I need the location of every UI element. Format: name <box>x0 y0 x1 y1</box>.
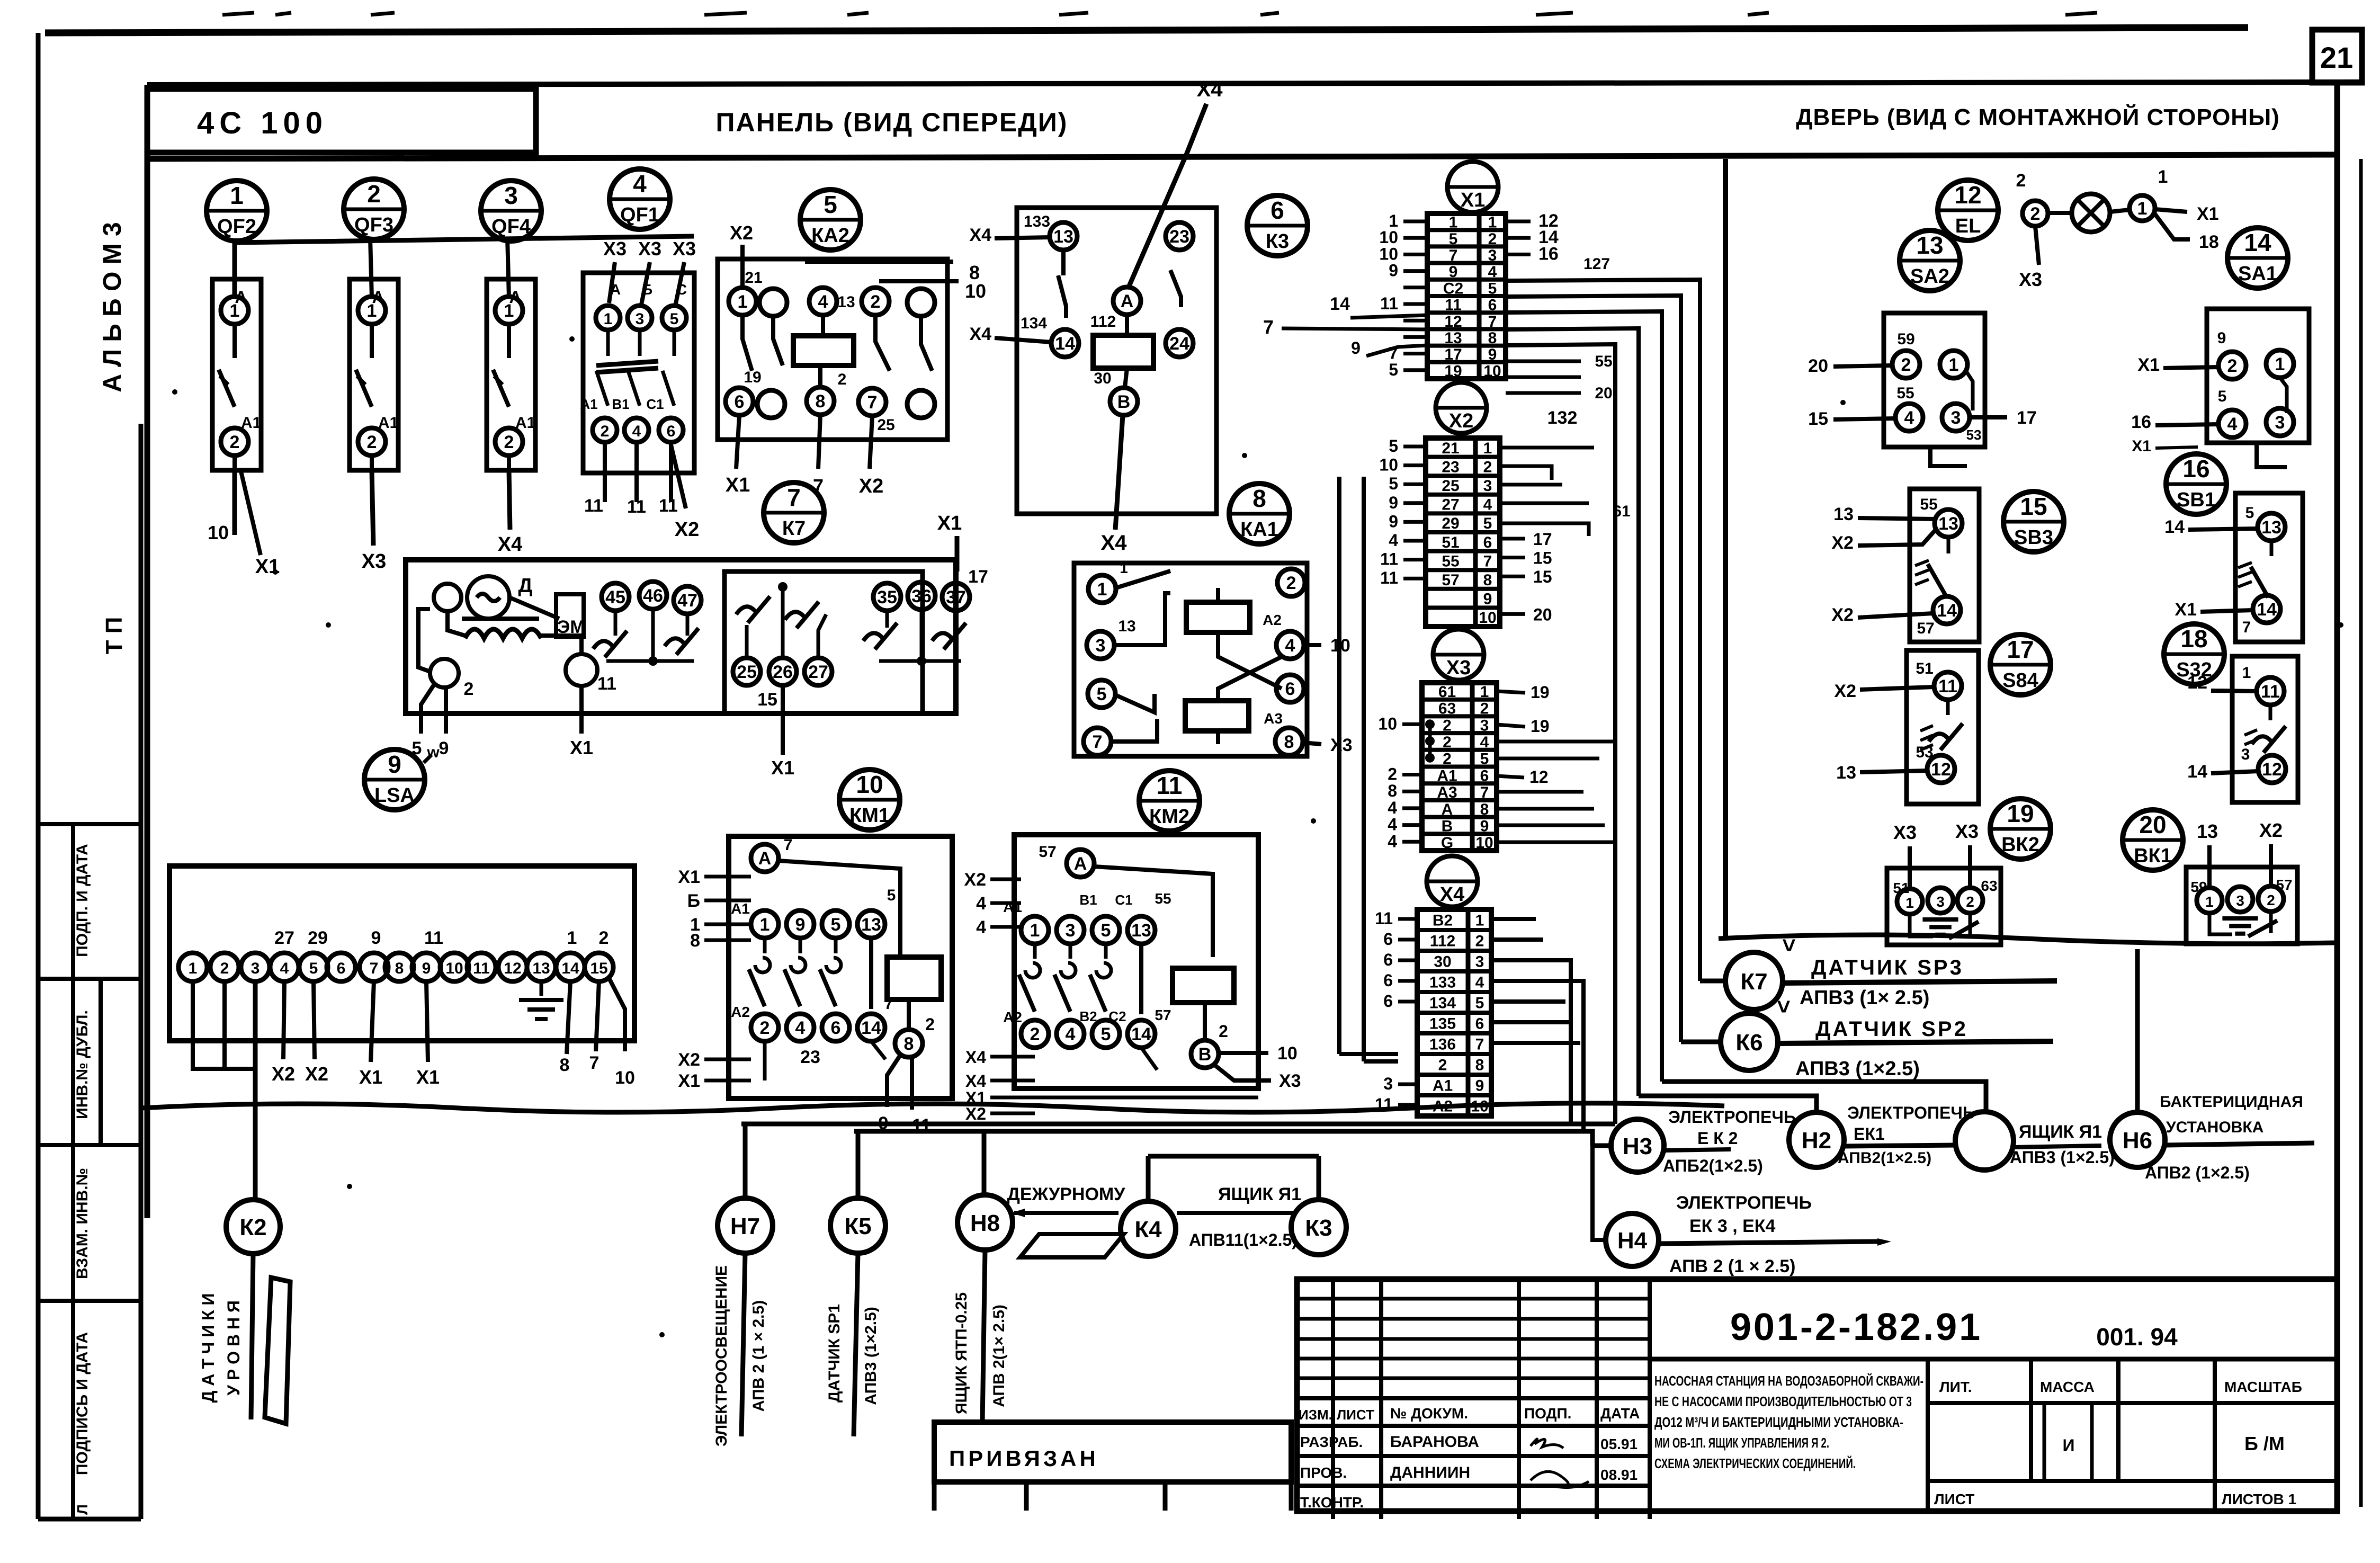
svg-text:9: 9 <box>1480 817 1489 835</box>
svg-text:10: 10 <box>1479 609 1496 627</box>
svg-text:134: 134 <box>1429 995 1456 1012</box>
label circle S84 <box>1990 635 2051 695</box>
svg-text:13: 13 <box>1916 231 1943 259</box>
svg-text:13: 13 <box>2197 820 2218 842</box>
level sensor parallelogram <box>265 1278 290 1424</box>
svg-text:ЭЛЕКТРОПЕЧЬ: ЭЛЕКТРОПЕЧЬ <box>1847 1103 1975 1122</box>
hub K4 <box>1121 1201 1176 1256</box>
svg-text:7: 7 <box>1488 313 1497 331</box>
svg-text:10: 10 <box>1475 834 1493 852</box>
bus line 2 <box>854 1131 1592 1146</box>
svg-text:3: 3 <box>2275 413 2285 433</box>
svg-text:7: 7 <box>784 836 793 854</box>
svg-text:X4: X4 <box>969 324 991 344</box>
svg-text:11: 11 <box>1938 676 1957 696</box>
terminal block X3 <box>1422 683 1497 852</box>
svg-text:6: 6 <box>1483 534 1492 551</box>
svg-text:А: А <box>1074 854 1087 874</box>
svg-text:36: 36 <box>911 586 932 606</box>
label circle SA2 <box>1900 230 1960 291</box>
svg-text:11: 11 <box>584 496 603 516</box>
svg-text:Н6: Н6 <box>2123 1128 2152 1154</box>
svg-text:27: 27 <box>274 928 294 948</box>
svg-text:В2: В2 <box>1433 912 1453 930</box>
svg-text:С2: С2 <box>1443 280 1463 297</box>
hub H2 <box>1789 1112 1844 1167</box>
svg-text:2: 2 <box>1438 1057 1447 1074</box>
terminal 11 of EM <box>566 654 597 686</box>
svg-text:А1: А1 <box>1003 899 1022 915</box>
svg-text:ВК1: ВК1 <box>2134 845 2172 867</box>
svg-text:13: 13 <box>2261 517 2281 538</box>
svg-text:АПВ 2(1× 2.5): АПВ 2(1× 2.5) <box>990 1305 1008 1407</box>
X1 right leads <box>1506 220 1531 224</box>
svg-text:12: 12 <box>504 960 521 977</box>
svg-text:3: 3 <box>1066 921 1076 941</box>
svg-text:13: 13 <box>1836 763 1856 783</box>
sensor box BK1 <box>2186 867 2297 944</box>
svg-text:6: 6 <box>667 423 676 440</box>
drawing area top line <box>147 155 2337 159</box>
svg-text:6: 6 <box>337 960 346 977</box>
svg-text:5: 5 <box>1389 474 1398 493</box>
svg-text:11: 11 <box>1375 909 1393 928</box>
svg-text:2: 2 <box>367 432 377 452</box>
svg-text:25: 25 <box>1442 477 1459 495</box>
X2 right leads <box>1500 537 1525 541</box>
KM1 aux circle 8 <box>907 999 911 1029</box>
svg-text:НАСОСНАЯ СТАНЦИЯ НА ВОДОЗАБОРН: НАСОСНАЯ СТАНЦИЯ НА ВОДОЗАБОРНОЙ СКВАЖИ- <box>1654 1373 1923 1389</box>
svg-text:55: 55 <box>1920 496 1937 513</box>
svg-text:5: 5 <box>1389 360 1398 379</box>
svg-text:4: 4 <box>1388 832 1397 851</box>
svg-text:901-2-182.91: 901-2-182.91 <box>1730 1306 1982 1348</box>
svg-text:15: 15 <box>1533 567 1552 586</box>
KM1 coil <box>887 957 941 999</box>
svg-text:13: 13 <box>532 960 550 977</box>
svg-text:Т П: Т П <box>101 617 127 655</box>
svg-text:29: 29 <box>308 928 328 948</box>
svg-text:7: 7 <box>1480 784 1489 801</box>
svg-text:9: 9 <box>1488 346 1497 363</box>
KA1 inner wires right <box>1250 596 1291 614</box>
svg-text:19: 19 <box>1531 717 1550 736</box>
svg-text:37: 37 <box>946 587 966 608</box>
svg-text:7: 7 <box>1483 552 1492 570</box>
svg-text:X1: X1 <box>726 474 750 496</box>
svg-text:9: 9 <box>795 915 806 935</box>
breaker QF3 body <box>350 279 398 470</box>
svg-text:5: 5 <box>1101 921 1111 941</box>
label circle K7 <box>764 483 824 543</box>
svg-text:X1: X1 <box>416 1066 440 1088</box>
svg-text:57: 57 <box>1155 1007 1171 1023</box>
svg-text:8: 8 <box>1475 1057 1484 1074</box>
H2 riser <box>1639 1096 1817 1112</box>
svg-text:X1: X1 <box>570 737 593 758</box>
svg-text:08.91: 08.91 <box>1600 1467 1638 1483</box>
svg-text:29: 29 <box>1442 515 1459 532</box>
svg-text:ПАНЕЛЬ (ВИД СПЕРЕДИ): ПАНЕЛЬ (ВИД СПЕРЕДИ) <box>716 108 1068 137</box>
svg-text:15: 15 <box>590 960 607 977</box>
svg-text:15: 15 <box>1808 409 1828 429</box>
svg-text:А3: А3 <box>1437 784 1457 801</box>
title block thin rows <box>1297 1297 1650 1301</box>
svg-text:3: 3 <box>1383 1074 1393 1093</box>
svg-text:1: 1 <box>1483 440 1492 457</box>
svg-text:11: 11 <box>473 960 490 977</box>
svg-text:В1: В1 <box>612 396 629 412</box>
svg-text:5: 5 <box>2245 504 2254 522</box>
svg-text:X2: X2 <box>272 1063 295 1085</box>
KA1 contact 1-3 <box>1116 571 1170 588</box>
KA1 contact 5-7 <box>1115 694 1155 712</box>
svg-text:SВ3: SВ3 <box>2014 526 2053 549</box>
svg-text:X4: X4 <box>1101 531 1128 555</box>
switch box SA1 <box>2207 309 2309 443</box>
svg-text:X2: X2 <box>1831 533 1854 553</box>
KA2 coil to 8 <box>818 365 822 387</box>
svg-text:46: 46 <box>643 586 663 606</box>
svg-text:63: 63 <box>1438 700 1456 718</box>
svg-text:X2: X2 <box>1834 681 1856 701</box>
svg-text:8: 8 <box>560 1055 570 1075</box>
svg-text:133: 133 <box>1024 213 1050 230</box>
svg-text:15: 15 <box>757 690 777 710</box>
svg-text:2: 2 <box>220 960 229 977</box>
KM2 aux circle B <box>1203 1003 1207 1039</box>
hub H6 <box>2110 1112 2165 1167</box>
KM1 switch strokes <box>763 938 767 953</box>
dezhurnomu arrow <box>1014 1211 1119 1215</box>
svg-text:А1: А1 <box>731 900 750 917</box>
H4 riser <box>1592 1146 1606 1240</box>
terminal block X1 <box>1427 213 1506 380</box>
svg-text:ПОДПИСЬ И ДАТА: ПОДПИСЬ И ДАТА <box>74 1332 91 1475</box>
SA2 bottom notch <box>1930 447 1967 466</box>
svg-text:1: 1 <box>1030 921 1040 941</box>
svg-text:25: 25 <box>877 416 894 434</box>
svg-text:К3: К3 <box>1305 1215 1332 1241</box>
svg-text:4: 4 <box>976 917 986 937</box>
svg-text:ДАТЧИК SP2: ДАТЧИК SP2 <box>1815 1017 1968 1041</box>
svg-text:55: 55 <box>1595 353 1612 370</box>
svg-text:X2: X2 <box>678 1050 700 1070</box>
hub K6 sensor <box>1721 1013 1778 1070</box>
svg-text:17: 17 <box>2017 408 2037 428</box>
svg-text:У Р О В Н Я: У Р О В Н Я <box>224 1300 243 1396</box>
svg-text:9: 9 <box>1389 512 1398 531</box>
label circle LSA <box>364 749 425 810</box>
svg-text:13: 13 <box>1053 227 1073 247</box>
K7 group outer box <box>406 560 956 713</box>
svg-text:В: В <box>1198 1044 1212 1065</box>
svg-text:13: 13 <box>1833 504 1854 524</box>
svg-text:4: 4 <box>1389 531 1398 550</box>
switch box S83 <box>1910 489 1979 642</box>
svg-text:35: 35 <box>877 587 897 608</box>
svg-text:7: 7 <box>370 960 379 977</box>
signature scribbles <box>1531 1439 1563 1448</box>
svg-text:АПВ11(1×2.5): АПВ11(1×2.5) <box>1189 1230 1298 1249</box>
svg-text:QF3: QF3 <box>354 214 393 236</box>
svg-text:МАСШТАБ: МАСШТАБ <box>2224 1379 2302 1395</box>
svg-text:53: 53 <box>1966 427 1982 443</box>
svg-text:134: 134 <box>1021 315 1047 332</box>
panel-door separator <box>1723 159 1728 937</box>
svg-text:57: 57 <box>1039 843 1056 861</box>
X3 right steps <box>1497 740 1615 744</box>
X3 circle <box>1433 629 1484 680</box>
svg-text:2: 2 <box>464 679 474 699</box>
svg-text:X3: X3 <box>1446 657 1471 679</box>
sidebar inner line <box>139 424 144 1519</box>
svg-text:7: 7 <box>1093 732 1103 752</box>
sheet number box 21 <box>2312 30 2362 83</box>
bus line 1 <box>741 1122 1615 1127</box>
svg-text:4: 4 <box>1904 408 1914 428</box>
svg-text:5: 5 <box>1480 751 1489 768</box>
svg-text:РАЗРАБ.: РАЗРАБ. <box>1300 1434 1363 1450</box>
svg-text:112: 112 <box>1090 313 1116 331</box>
svg-text:1: 1 <box>1449 214 1458 231</box>
svg-text:6: 6 <box>1480 767 1489 784</box>
svg-text:И: И <box>2063 1436 2075 1455</box>
svg-text:3: 3 <box>251 960 260 977</box>
svg-text:X3: X3 <box>673 238 696 260</box>
svg-text:6: 6 <box>1270 197 1284 224</box>
svg-text:47: 47 <box>677 591 697 611</box>
svg-text:С1: С1 <box>1115 892 1132 908</box>
svg-text:К7: К7 <box>782 517 806 540</box>
svg-text:АПВ3 (1× 2.5): АПВ3 (1× 2.5) <box>1800 987 1929 1009</box>
svg-text:1: 1 <box>2158 167 2168 187</box>
svg-text:55: 55 <box>1155 890 1171 907</box>
svg-text:X3: X3 <box>638 238 661 260</box>
ground under 13 <box>540 981 543 996</box>
svg-text:ЛИТ.: ЛИТ. <box>1939 1379 1972 1395</box>
svg-text:2: 2 <box>601 423 610 440</box>
breaker QF1 body <box>580 273 694 502</box>
svg-text:1: 1 <box>1488 214 1497 231</box>
title right subtable <box>1926 1359 1930 1511</box>
svg-text:7: 7 <box>1449 247 1458 264</box>
svg-text:2: 2 <box>504 432 514 452</box>
svg-text:А1: А1 <box>1433 1077 1453 1095</box>
svg-text:11: 11 <box>2261 682 2280 702</box>
svg-text:X2: X2 <box>964 870 986 890</box>
svg-text:15: 15 <box>2020 493 2047 520</box>
svg-text:21: 21 <box>1442 440 1459 457</box>
title block outer <box>1297 1279 2337 1511</box>
title description cell <box>1650 1357 2337 1362</box>
svg-text:7: 7 <box>589 1053 600 1073</box>
svg-text:1: 1 <box>760 915 770 935</box>
svg-text:G: G <box>1441 834 1453 852</box>
svg-text:27: 27 <box>808 662 828 682</box>
svg-text:8: 8 <box>816 391 826 412</box>
svg-text:А2: А2 <box>1263 612 1282 628</box>
svg-text:Л: Л <box>74 1504 91 1515</box>
svg-text:С: С <box>676 281 687 298</box>
svg-text:17: 17 <box>968 567 988 587</box>
svg-text:5: 5 <box>887 887 896 904</box>
svg-text:6: 6 <box>1383 992 1393 1011</box>
svg-text:05.91: 05.91 <box>1600 1436 1638 1452</box>
svg-text:SА1: SА1 <box>2238 263 2277 285</box>
svg-text:К4: К4 <box>1134 1217 1162 1243</box>
svg-text:А: А <box>1121 291 1134 311</box>
label circle K3 <box>1247 195 1308 256</box>
panel header box 4C 100 <box>147 89 536 153</box>
svg-text:20: 20 <box>1595 385 1612 402</box>
breaker QF4 body <box>487 279 535 470</box>
svg-text:11: 11 <box>659 496 678 516</box>
doc number <box>1648 1279 1652 1519</box>
svg-text:16: 16 <box>2131 412 2151 432</box>
svg-text:11: 11 <box>1380 294 1398 313</box>
svg-text:1: 1 <box>2205 894 2214 910</box>
svg-text:ВК2: ВК2 <box>2001 834 2039 856</box>
QF1 interlock bar <box>596 361 658 365</box>
svg-text:АПВ3 (1×2.5): АПВ3 (1×2.5) <box>2010 1148 2115 1167</box>
svg-text:21: 21 <box>745 269 762 287</box>
X4 circle <box>1427 856 1478 907</box>
svg-text:10: 10 <box>1483 362 1501 380</box>
hub H3 <box>1611 1119 1664 1172</box>
svg-text:9: 9 <box>1351 338 1361 358</box>
svg-text:4: 4 <box>976 894 986 914</box>
svg-text:ЭЛЕКТРОПЕЧЬ: ЭЛЕКТРОПЕЧЬ <box>1676 1193 1812 1213</box>
svg-text:2: 2 <box>1030 1024 1040 1044</box>
svg-text:ИЗМ.: ИЗМ. <box>1299 1407 1332 1423</box>
svg-text:1: 1 <box>504 301 514 321</box>
svg-text:X3: X3 <box>1279 1071 1301 1091</box>
svg-text:11: 11 <box>627 497 646 517</box>
sensor box BK2 <box>1887 868 2001 945</box>
label circle SA1 <box>2227 228 2288 288</box>
KM2 right leads <box>1219 1051 1268 1055</box>
svg-text:9: 9 <box>1389 261 1398 280</box>
svg-text:9: 9 <box>1389 493 1398 512</box>
svg-text:X2: X2 <box>1449 410 1473 432</box>
svg-text:4: 4 <box>818 292 828 312</box>
inductor EM <box>462 617 539 621</box>
svg-text:ЭЛЕКТРООСВЕЩЕНИЕ: ЭЛЕКТРООСВЕЩЕНИЕ <box>713 1265 730 1446</box>
svg-text:2: 2 <box>2227 356 2238 376</box>
KA2 terminals bottom row <box>726 388 753 415</box>
KA1 left terminals <box>1088 575 1116 603</box>
svg-text:X1: X1 <box>678 1071 700 1091</box>
contacts 35 36 37 <box>873 583 901 611</box>
relay KA2 box <box>718 259 947 440</box>
svg-text:АПБ2(1×2.5): АПБ2(1×2.5) <box>1663 1156 1763 1175</box>
svg-text:X3: X3 <box>362 550 386 573</box>
terminal strip circles <box>178 953 207 981</box>
hub K5 <box>830 1198 885 1253</box>
svg-text:X3: X3 <box>1955 820 1979 842</box>
svg-text:11: 11 <box>1380 568 1398 587</box>
svg-text:6: 6 <box>735 392 745 412</box>
bus line 3 K4-K3 feed <box>1148 1154 1319 1159</box>
KA2 switch strokes <box>742 315 752 371</box>
contactor KM2 outer box <box>1014 835 1258 1088</box>
svg-text:Е К 2: Е К 2 <box>1697 1129 1738 1148</box>
svg-text:7: 7 <box>1475 1036 1484 1053</box>
svg-text:1: 1 <box>1120 560 1128 576</box>
svg-text:1: 1 <box>738 292 748 312</box>
svg-text:8: 8 <box>1252 485 1266 512</box>
EM bottom leads <box>421 684 434 734</box>
svg-text:ДАТА: ДАТА <box>1600 1405 1640 1422</box>
svg-text:4: 4 <box>1285 636 1295 656</box>
svg-text:2: 2 <box>925 1015 935 1034</box>
svg-text:QF4: QF4 <box>491 216 531 238</box>
label circle S32 <box>2164 624 2224 684</box>
wavy bus line panel <box>141 1103 1724 1112</box>
wavy bus line door <box>1719 935 2334 944</box>
svg-text:13: 13 <box>1938 514 1958 534</box>
svg-text:X4: X4 <box>965 1048 986 1067</box>
svg-text:Н7: Н7 <box>730 1213 760 1239</box>
sidebar column line <box>71 824 75 1519</box>
svg-text:ЛИСТ: ЛИСТ <box>1934 1491 1974 1507</box>
svg-text:9: 9 <box>1449 263 1458 281</box>
svg-text:ЛИСТОВ 1: ЛИСТОВ 1 <box>2222 1491 2296 1507</box>
svg-text:X2: X2 <box>965 1104 986 1123</box>
svg-text:4: 4 <box>632 423 641 440</box>
svg-text:10: 10 <box>965 280 986 302</box>
svg-text:12: 12 <box>2187 673 2207 693</box>
svg-text:21: 21 <box>2320 41 2353 74</box>
svg-text:10: 10 <box>615 1068 635 1088</box>
svg-text:4С 100: 4С 100 <box>197 106 328 140</box>
svg-text:4: 4 <box>1388 798 1397 817</box>
svg-text:АПВ2 (1×2.5): АПВ2 (1×2.5) <box>2145 1163 2250 1182</box>
svg-text:Н3: Н3 <box>1623 1133 1652 1159</box>
svg-text:1: 1 <box>1480 683 1489 701</box>
KA1 coils <box>1186 602 1250 632</box>
svg-text:9: 9 <box>371 928 381 948</box>
svg-text:12: 12 <box>1954 181 1981 209</box>
svg-text:МАССА: МАССА <box>2040 1379 2095 1395</box>
svg-text:13: 13 <box>1118 618 1135 635</box>
svg-text:1: 1 <box>189 960 198 977</box>
svg-text:5: 5 <box>1449 230 1458 248</box>
svg-text:КА2: КА2 <box>811 225 849 247</box>
label circle EL <box>1938 180 1998 240</box>
svg-text:2: 2 <box>1475 933 1484 950</box>
svg-text:17: 17 <box>2007 636 2034 663</box>
svg-text:8: 8 <box>1480 801 1489 818</box>
svg-text:4: 4 <box>2227 414 2238 434</box>
title block columns left <box>1331 1279 1335 1519</box>
svg-text:6: 6 <box>831 1018 841 1038</box>
svg-text:SА2: SА2 <box>1910 265 1949 288</box>
svg-text:55: 55 <box>1442 552 1459 570</box>
strip wires down <box>193 981 255 1069</box>
switch box SA2 <box>1884 313 1985 447</box>
svg-text:№ ДОКУМ.: № ДОКУМ. <box>1390 1405 1468 1422</box>
svg-text:ДЕЖУРНОМУ: ДЕЖУРНОМУ <box>1007 1184 1126 1204</box>
svg-text:X2: X2 <box>305 1063 328 1085</box>
label circle KM1 <box>839 770 900 830</box>
svg-text:136: 136 <box>1429 1036 1456 1053</box>
svg-text:61: 61 <box>1438 683 1456 701</box>
svg-text:ЭЛЕКТРОПЕЧЬ: ЭЛЕКТРОПЕЧЬ <box>1668 1108 1796 1127</box>
svg-text:X1: X1 <box>937 512 962 534</box>
svg-text:14: 14 <box>1055 334 1075 354</box>
